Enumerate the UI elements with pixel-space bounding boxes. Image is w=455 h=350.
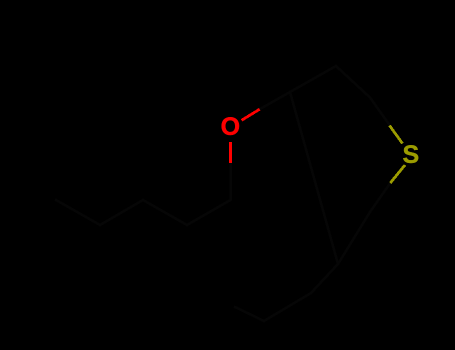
wire bond S-Cring carbon half lower bbox=[370, 183, 390, 212]
svg-text:O: O bbox=[221, 113, 240, 141]
wire bond P-Q tail bbox=[264, 293, 311, 321]
wire bond S upper sulfur half (olive) bbox=[390, 126, 403, 144]
svg-text:S: S bbox=[403, 141, 420, 169]
wire bond O-CH2 carbon half bbox=[260, 92, 290, 109]
wire bond C3-C2 pentyl chain bbox=[143, 200, 187, 225]
wire bond C1-O carbon half bbox=[229, 163, 232, 200]
wire bond Cring-B lower right ring edge bbox=[338, 212, 370, 264]
wire bond C5-C4 pentyl chain end bbox=[56, 200, 100, 225]
wire bond Cring-S carbon half upper bbox=[370, 98, 390, 127]
wire bond Q-R tail end bbox=[235, 307, 264, 321]
wire bond S lower sulfur half (olive) bbox=[390, 165, 405, 183]
wire bond B-P tail bbox=[311, 264, 338, 293]
wire bond O-C1 oxygen half (red) bbox=[229, 142, 232, 163]
wire bond CH2-CH2a bbox=[290, 66, 336, 92]
wire bond long edge CH2-B bbox=[290, 92, 338, 264]
wire bond C4-C3 pentyl chain bbox=[100, 200, 143, 225]
wire bond C2-C1 pentyl chain bbox=[187, 200, 231, 225]
wire bond O-CH2 oxygen half (red) bbox=[242, 109, 260, 120]
wire bond CH2a-C ring top bbox=[336, 66, 370, 98]
